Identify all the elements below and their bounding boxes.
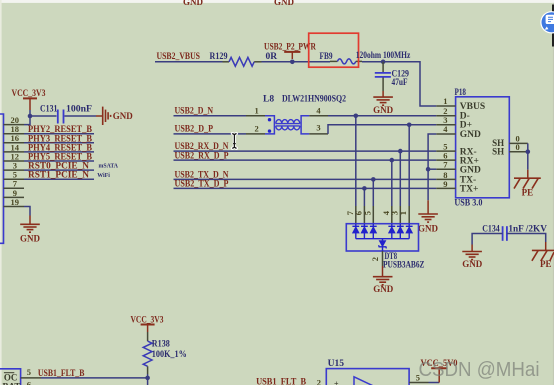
wire pin5 RST1 <box>24 178 94 180</box>
svg-text:2: 2 <box>317 378 321 385</box>
svg-text:C134: C134 <box>482 223 500 233</box>
pin 1 stub <box>246 115 265 117</box>
text cursor (I-beam) <box>232 133 236 148</box>
wire USB2_D_P to L8 pin2 <box>174 133 247 135</box>
svg-text:1: 1 <box>443 96 447 106</box>
svg-text:100nF: 100nF <box>66 103 93 113</box>
svg-text:1: 1 <box>255 105 259 115</box>
svg-text:6: 6 <box>27 379 31 385</box>
power port VCC_3V3 (top left) <box>12 89 46 116</box>
wire FB9 to P18 pin1 <box>362 62 436 106</box>
winding bottom <box>276 125 300 127</box>
wire L8 pin3 (D+) jog to P18 pin3 <box>328 125 436 134</box>
wire C134 left to GND <box>472 234 503 245</box>
svg-text:USB2_D_P: USB2_D_P <box>175 124 214 134</box>
body <box>346 224 418 251</box>
wire pin16 PHY3 <box>24 142 94 144</box>
connector P18 <box>454 88 509 209</box>
pin 3 stub <box>309 133 328 135</box>
ground (below C129) <box>373 78 394 115</box>
pin 5 <box>4 170 25 180</box>
capacitor C134 <box>482 223 547 241</box>
node TX- junction <box>371 177 376 182</box>
diode D6 <box>361 224 368 239</box>
svg-text:FB9: FB9 <box>320 52 333 62</box>
ground (below P18) <box>418 200 439 233</box>
wire junction to C131 <box>30 115 57 117</box>
wire L8 pin4 (D-) to P18 pin2 <box>328 115 436 117</box>
diode D3 <box>397 224 404 239</box>
wire RX+ down to DT8 pin4 <box>391 160 393 206</box>
svg-text:USB2_D_N: USB2_D_N <box>175 107 214 117</box>
node D- junction <box>354 114 359 119</box>
ground (below DT8) <box>373 266 394 294</box>
wire pin12 PHY5 <box>24 160 94 162</box>
power port VCC_3V3 (bottom) <box>131 316 164 333</box>
pin 12 <box>4 151 25 161</box>
svg-text:GND: GND <box>462 259 483 269</box>
common-mode choke L8 <box>246 94 346 134</box>
wire RX- down to DT8 pin3 <box>399 151 401 206</box>
wire pin18 PHY2 <box>24 133 94 135</box>
resistor R129 <box>210 52 278 66</box>
diode D4 <box>388 224 395 239</box>
power port USB2_P2_PWR <box>264 42 316 59</box>
side panel sliver (top right edge) <box>552 5 554 47</box>
diode D7 <box>352 224 359 239</box>
svg-text:USB1_FLT_B: USB1_FLT_B <box>256 378 307 385</box>
pin 14 <box>4 142 25 152</box>
node C129 junction <box>381 60 386 65</box>
body left bracket <box>265 116 274 134</box>
node SH junction <box>526 149 531 154</box>
right edge line <box>553 3 554 385</box>
wire P18 pin7 GND <box>428 168 436 170</box>
resistor R138 <box>143 332 187 374</box>
node R138 junction <box>145 376 150 381</box>
pin 19 <box>4 197 25 207</box>
svg-text:BAT: BAT <box>3 382 21 385</box>
gate triangle <box>354 377 375 385</box>
ground (sideways, right of C131) <box>96 107 133 125</box>
pin 18 <box>4 124 25 134</box>
svg-text:USB 3.0: USB 3.0 <box>454 199 482 209</box>
wire USB2_RX_D_N to P18 pin5 <box>174 150 437 152</box>
polarity dot bottom <box>268 129 271 132</box>
power port PE (upper) <box>514 170 541 198</box>
svg-text:SH: SH <box>492 146 504 156</box>
node P18 GND junction <box>426 167 431 172</box>
svg-text:R138: R138 <box>152 339 170 349</box>
svg-text:DLW21HN900SQ2: DLW21HN900SQ2 <box>282 94 346 104</box>
P18 pin 7 GND <box>436 160 481 176</box>
P18 pin 2 D- <box>436 106 470 122</box>
wire pin19 to GND <box>24 207 30 216</box>
TVS array DT8 <box>345 206 425 270</box>
svg-text:120ohm 100MHz: 120ohm 100MHz <box>356 51 411 61</box>
wire USB2_D_N to L8 pin1 <box>174 115 247 117</box>
svg-text:VBUS: VBUS <box>460 102 485 112</box>
P18 pin 6 RX+ <box>436 151 479 167</box>
wire R138 to pin stub down <box>147 374 149 385</box>
wire USB2_RX_D_P to P18 pin6 <box>174 159 437 161</box>
pin 3 stub <box>399 206 401 224</box>
node USB2_P2_PWR junction <box>290 60 295 65</box>
diode D1 <box>406 224 413 239</box>
winding top <box>276 123 300 125</box>
svg-text:5: 5 <box>362 211 372 215</box>
node RX- junction <box>398 149 403 154</box>
ground (below C134) <box>462 245 483 269</box>
common rail <box>356 238 409 240</box>
svg-text:GND: GND <box>373 105 394 115</box>
svg-text:USB1_FLT_B: USB1_FLT_B <box>38 369 85 379</box>
P18 pin 3 D+ <box>436 115 472 131</box>
body right bracket <box>301 116 309 134</box>
capacitor C131 <box>40 103 93 123</box>
pin 6 stub <box>363 206 365 224</box>
svg-text:9: 9 <box>443 179 447 189</box>
buffer U15 <box>326 359 409 385</box>
svg-text:RST1_PCIE_N: RST1_PCIE_N <box>28 171 89 181</box>
svg-text:1: 1 <box>398 211 408 215</box>
pin 2 stub <box>246 133 265 135</box>
svg-text:GND: GND <box>274 0 295 7</box>
svg-text:GND: GND <box>183 0 204 7</box>
pin 4 stub <box>391 206 393 224</box>
pin 1 stub <box>408 206 410 224</box>
svg-text:PE: PE <box>522 187 534 197</box>
svg-text:1nF /2KV: 1nF /2KV <box>508 223 547 233</box>
node VCC_3V3 junction <box>28 114 33 119</box>
node TX+ junction <box>362 186 367 191</box>
left edge strip <box>0 0 2 385</box>
wire USB2_TX_D_N to P18 pin8 <box>174 178 437 180</box>
P18 pin SH (lower) <box>492 142 528 156</box>
power port PE (lower right) <box>532 242 554 269</box>
ground (below pin 19) <box>20 216 41 244</box>
wire USB1_FLT_B horizontal <box>41 377 148 379</box>
connector J? (left edge body) <box>0 114 4 243</box>
pin 2 stub <box>382 251 384 266</box>
svg-text:L8: L8 <box>263 94 274 104</box>
pin 4 stub <box>309 115 328 117</box>
svg-text:R129: R129 <box>210 52 228 62</box>
svg-text:USB2_VBUS: USB2_VBUS <box>157 52 201 62</box>
wire U15 pin5 to VCC_5V0 <box>429 382 440 384</box>
pin 5 stub <box>372 206 374 224</box>
node D+ junction <box>407 123 412 128</box>
top window strip <box>0 0 554 3</box>
pin 5 (OC) <box>21 367 41 378</box>
wire P18 pin4 GND down <box>428 134 436 200</box>
wire R129 to FB9 <box>262 61 331 63</box>
pin 20 <box>4 115 25 125</box>
wire C134 right to PE <box>507 234 546 243</box>
wire pin3 RST0 <box>24 169 94 171</box>
svg-text:TX+: TX+ <box>460 185 479 195</box>
wire TX+ down to DT8 pin6 <box>363 188 365 206</box>
wire pin14 PHY4 <box>24 151 94 153</box>
pin 7 stub <box>355 206 357 224</box>
svg-text:0: 0 <box>516 142 520 152</box>
P18 pin 1 VBUS <box>436 96 485 112</box>
diode D5 <box>370 224 377 239</box>
wire SH pins join <box>527 143 529 151</box>
svg-text:GND: GND <box>373 284 394 294</box>
svg-text:2: 2 <box>255 124 259 134</box>
zener diode (center, down) <box>379 239 387 251</box>
svg-text:U15: U15 <box>328 359 345 369</box>
pin 7 <box>4 179 25 189</box>
pin 16 <box>4 133 25 143</box>
pin 3 <box>4 161 25 171</box>
P18 pin SH (upper) <box>492 134 528 148</box>
svg-text:GND: GND <box>460 130 481 140</box>
svg-text:GND: GND <box>20 234 41 244</box>
P18 pin 9 TX+ <box>436 179 478 195</box>
svg-text:47uF: 47uF <box>392 77 408 87</box>
svg-text:19: 19 <box>11 197 20 207</box>
connector (bottom left, OC) <box>0 369 21 385</box>
wire C131 to GND <box>65 115 97 117</box>
svg-text:CSDN @MHai: CSDN @MHai <box>419 359 540 381</box>
wire TX- down to DT8 pin5 <box>372 179 374 206</box>
P18 pin 4 GND <box>436 124 481 140</box>
ground (top cut, right) <box>274 0 295 7</box>
ground (top cut, left) <box>183 0 204 7</box>
selection rectangle around FB9 <box>309 33 359 67</box>
node RX+ junction <box>390 158 395 163</box>
wire pin20 to VCC junction <box>24 116 30 125</box>
svg-text:3: 3 <box>316 122 320 132</box>
svg-text:mSATA: mSATA <box>99 163 119 170</box>
svg-text:PUSB3AB6Z: PUSB3AB6Z <box>383 260 425 270</box>
svg-text:0R: 0R <box>266 52 278 62</box>
wire USB2_VBUS to R129 <box>155 61 223 63</box>
svg-text:GND: GND <box>460 165 481 175</box>
svg-text:100K_1%: 100K_1% <box>152 350 187 360</box>
wire USB2_TX_D_P to P18 pin9 <box>174 187 437 189</box>
power port VCC_5V0 <box>421 359 458 383</box>
svg-text:4: 4 <box>316 105 321 115</box>
svg-text:GND: GND <box>418 224 439 234</box>
svg-text:5: 5 <box>27 367 31 377</box>
svg-text:PE: PE <box>540 259 552 269</box>
U15 pin 5 <box>409 373 428 383</box>
ferrite bead FB9 <box>320 52 363 64</box>
svg-text:GND: GND <box>113 111 134 121</box>
wire D+ down to DT8 pin1 <box>408 125 410 206</box>
svg-text:+: + <box>334 380 339 385</box>
svg-text:2: 2 <box>370 257 380 261</box>
wire SH to PE <box>527 152 529 170</box>
P18 pin 8 TX- <box>436 170 476 186</box>
capacitor C129 <box>375 62 410 87</box>
P18 pin 5 RX- <box>436 142 476 158</box>
pin 9 <box>4 188 25 198</box>
wire D- down to DT8 pin7 <box>355 116 357 206</box>
floating button (top right, cut) <box>540 11 554 33</box>
svg-text:WiFi: WiFi <box>97 172 110 179</box>
svg-text:C131: C131 <box>40 103 58 113</box>
polarity dot top <box>268 118 271 121</box>
